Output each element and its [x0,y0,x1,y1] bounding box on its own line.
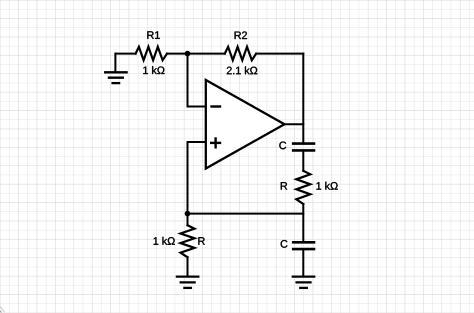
label R2 [235,31,247,39]
wire node A to inverting input [188,54,206,107]
label R4 value 1 kΩ [154,237,175,245]
label C1 [279,142,286,150]
resistor R2 [225,47,256,60]
label R3 value 1 kΩ [316,182,337,190]
wire non-inverting input to node B rail [188,142,206,214]
cursor tip artifact bottom-left corner [0,307,5,313]
label R4 [198,237,204,244]
wire op-amp output [285,123,304,125]
wire R2 to right rail [256,53,303,55]
label R1 value 1 kΩ [143,66,164,74]
wire C2 to ground [302,249,304,276]
wire R1 to R2 (through node A) [167,53,225,55]
label C2 [281,240,288,248]
node B junction dot [185,211,191,217]
wire C1 to R3 [302,150,304,170]
ground G2 bottom-right [293,277,314,288]
op-amp plus pin mark [211,139,220,148]
resistor R3 [296,171,310,204]
resistor R1 [136,47,167,60]
resistor R4 [181,225,195,257]
wire ground to R1 [115,53,135,55]
wire R3 down to C2 (through node B) [302,204,304,241]
label R3 [281,182,287,189]
node A junction dot [185,51,191,57]
op-amp minus pin mark [212,105,221,107]
capacitor C2 [293,242,314,249]
wire bottom rail [188,213,304,215]
wire R4 to ground [187,257,189,276]
op-amp U1 [206,80,285,169]
ground G1 top-left [105,54,126,84]
label R1 [147,31,159,38]
ground G3 bottom-left [177,277,198,288]
wire right rail down to C1 [302,54,304,143]
wire node B down to R4 [187,214,189,226]
label R2 value 2.1 kΩ [227,66,257,74]
capacitor C1 [293,144,314,151]
